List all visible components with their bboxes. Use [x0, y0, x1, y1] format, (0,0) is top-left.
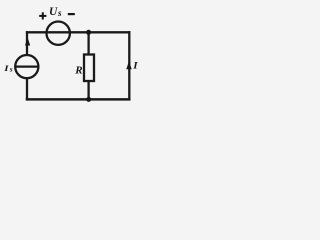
- svg-text:U: U: [49, 6, 58, 18]
- svg-text:s: s: [57, 8, 62, 18]
- svg-text:R: R: [74, 64, 82, 76]
- svg-text:s: s: [9, 65, 13, 74]
